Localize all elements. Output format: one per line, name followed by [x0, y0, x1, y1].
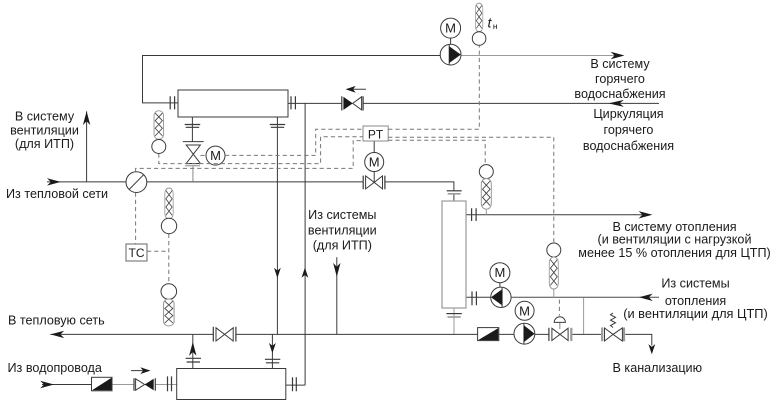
svg-text:TC: TC: [129, 246, 145, 260]
svg-text:Из системы: Из системы: [661, 277, 729, 291]
svg-text:M: M: [494, 265, 505, 280]
svg-text:(и вентиляции с нагрузкой: (и вентиляции с нагрузкой: [598, 233, 752, 247]
svg-text:водоснабжения: водоснабжения: [583, 139, 674, 153]
svg-text:водоснабжения: водоснабжения: [574, 87, 665, 101]
svg-text:н: н: [493, 21, 498, 31]
svg-text:В тепловую сеть: В тепловую сеть: [8, 314, 105, 328]
svg-text:Из водопровода: Из водопровода: [8, 361, 102, 375]
svg-text:(для ИТП): (для ИТП): [15, 137, 74, 151]
svg-text:Циркуляция: Циркуляция: [593, 107, 663, 121]
svg-text:В систему: В систему: [590, 57, 650, 71]
svg-text:Из тепловой сети: Из тепловой сети: [6, 187, 108, 201]
svg-text:M: M: [445, 21, 456, 36]
svg-text:M: M: [369, 155, 380, 170]
svg-text:менее 15 % отопления для ЦТП): менее 15 % отопления для ЦТП): [578, 246, 770, 260]
svg-text:M: M: [210, 148, 221, 163]
svg-text:вентиляции: вентиляции: [10, 124, 79, 138]
svg-text:(для ИТП): (для ИТП): [313, 239, 372, 253]
svg-text:горячего: горячего: [604, 123, 654, 137]
svg-text:Из системы: Из системы: [308, 208, 376, 222]
svg-text:M: M: [519, 303, 530, 318]
svg-text:В систему: В систему: [15, 110, 75, 124]
svg-text:PT: PT: [368, 127, 384, 141]
svg-text:(и вентиляции для ЦТП): (и вентиляции для ЦТП): [623, 306, 768, 321]
svg-text:горячего: горячего: [595, 72, 645, 86]
svg-text:В канализацию: В канализацию: [613, 361, 703, 375]
svg-text:вентиляции: вентиляции: [308, 224, 377, 238]
